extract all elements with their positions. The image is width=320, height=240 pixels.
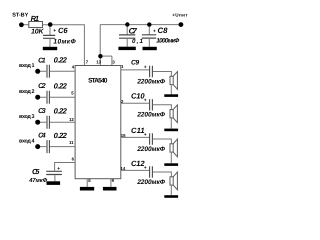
- svg-text:С3: С3: [38, 108, 46, 115]
- svg-text:С2: С2: [38, 83, 46, 90]
- svg-text:4: 4: [72, 64, 75, 69]
- svg-text:6: 6: [72, 157, 75, 162]
- svg-text:ST-BY: ST-BY: [12, 13, 28, 19]
- svg-text:2200мкФ: 2200мкФ: [136, 112, 166, 119]
- svg-text:вход 1: вход 1: [19, 63, 35, 69]
- svg-text:11: 11: [69, 140, 74, 145]
- svg-text:7: 7: [86, 60, 89, 65]
- svg-text:12: 12: [69, 117, 74, 122]
- svg-text:13: 13: [96, 60, 101, 65]
- svg-text:R1: R1: [31, 14, 39, 23]
- svg-text:+: +: [144, 132, 147, 138]
- svg-text:2200мкФ: 2200мкФ: [136, 78, 166, 85]
- svg-text:2200мкФ: 2200мкФ: [136, 179, 166, 186]
- svg-text:3: 3: [112, 60, 115, 65]
- svg-text:0.22: 0.22: [54, 131, 68, 140]
- svg-text:С8: С8: [158, 26, 169, 35]
- svg-text:вход 4: вход 4: [19, 139, 35, 145]
- svg-text:5: 5: [71, 91, 74, 96]
- svg-text:+: +: [144, 165, 147, 171]
- svg-text:+: +: [144, 98, 147, 104]
- svg-text:С6: С6: [58, 26, 68, 35]
- svg-text:+: +: [57, 166, 60, 172]
- svg-text:С1: С1: [38, 57, 46, 64]
- svg-text:10K: 10K: [31, 29, 45, 36]
- svg-text:вход 3: вход 3: [19, 114, 35, 120]
- svg-text:1: 1: [121, 64, 124, 69]
- svg-text:0.22: 0.22: [54, 82, 68, 91]
- svg-text:С7: С7: [129, 26, 138, 35]
- svg-text:С11: С11: [131, 126, 145, 135]
- svg-text:1000мкФ: 1000мкФ: [156, 38, 179, 45]
- svg-text:+Uпит: +Uпит: [172, 13, 188, 18]
- svg-text:0,1: 0,1: [132, 38, 143, 45]
- svg-text:С4: С4: [38, 133, 46, 140]
- svg-text:0.22: 0.22: [54, 107, 68, 116]
- svg-text:+: +: [53, 28, 56, 34]
- svg-text:+: +: [144, 64, 147, 70]
- svg-text:С9: С9: [131, 60, 139, 67]
- svg-text:14: 14: [121, 166, 126, 171]
- svg-text:10мкФ: 10мкФ: [53, 38, 76, 45]
- svg-text:15: 15: [121, 133, 126, 138]
- svg-text:2200мкФ: 2200мкФ: [136, 146, 166, 153]
- svg-text:вход 2: вход 2: [19, 89, 35, 95]
- svg-text:0.22: 0.22: [54, 56, 68, 65]
- svg-text:С5: С5: [32, 167, 40, 176]
- svg-text:47мкФ: 47мкФ: [28, 177, 47, 184]
- svg-text:STA540: STA540: [88, 78, 108, 85]
- svg-text:+: +: [153, 28, 156, 34]
